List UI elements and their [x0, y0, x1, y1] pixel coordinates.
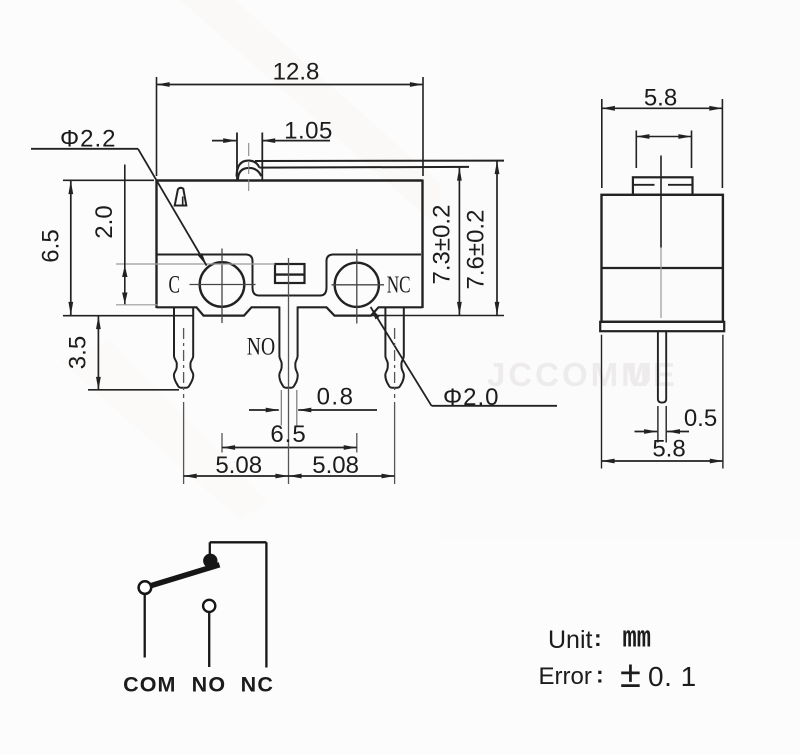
svg-text:Φ2.0: Φ2.0	[443, 384, 500, 411]
svg-text:NC: NC	[387, 272, 411, 298]
svg-text:5.08: 5.08	[215, 452, 262, 479]
body bottom edge with dips	[157, 307, 423, 315]
dim 0.5 extensions	[658, 406, 666, 443]
leader Phi2.0	[432, 405, 558, 407]
svg-text:7.3±0.2: 7.3±0.2	[429, 205, 456, 285]
dim 0.8 extensions	[281, 390, 297, 426]
dim 2.0 line	[124, 165, 126, 305]
pin 2 (NO terminal)	[279, 307, 297, 388]
svg-text:NO: NO	[192, 672, 227, 696]
side view centre line	[660, 156, 662, 248]
svg-text:mm: mm	[623, 622, 652, 657]
centre window rectangle	[275, 264, 305, 283]
schematic top wire	[210, 541, 267, 543]
button width dim line	[636, 136, 691, 138]
dim 6.5 left: extensions	[63, 180, 194, 315]
switch body outline (front view)	[157, 180, 423, 309]
dim 7.3 extension/bottom ext	[372, 315, 504, 317]
svg-text:Φ2.2: Φ2.2	[60, 126, 117, 153]
dim 5.8 top line	[602, 107, 723, 109]
plunger dome outer arc	[237, 161, 260, 177]
schematic NO wire	[208, 612, 210, 667]
button width dim extensions	[636, 131, 691, 169]
schematic COM drop wire	[209, 542, 211, 555]
svg-text:6.5: 6.5	[270, 421, 306, 448]
svg-text:7.6±0.2: 7.6±0.2	[463, 210, 490, 290]
svg-text:0.5: 0.5	[684, 405, 717, 432]
dim 3.5 extension	[88, 389, 179, 391]
dim 12.8 line	[157, 84, 424, 86]
lever bottom line	[259, 166, 469, 169]
svg-text:Error: Error	[539, 663, 592, 690]
svg-text::: :	[596, 662, 604, 688]
svg-text:COM: COM	[123, 672, 176, 696]
schematic lever (thick)	[147, 565, 220, 587]
svg-text:12.8: 12.8	[273, 59, 320, 86]
pin 1 (COM terminal)	[174, 307, 193, 388]
dim 5.8 bottom extensions	[602, 335, 723, 469]
dim 5.8 top extensions	[602, 99, 723, 188]
svg-text:NC: NC	[241, 672, 274, 696]
schematic COM contact circle	[139, 581, 152, 594]
svg-text:Unit: Unit	[548, 626, 593, 654]
svg-text:±: ±	[620, 654, 641, 696]
dim 7.3 line	[458, 168, 460, 316]
svg-text:UE: UE	[628, 356, 676, 393]
latch tab inner tick	[182, 197, 184, 205]
side view pin	[658, 331, 666, 402]
dim 5.08 right line	[289, 475, 395, 477]
contact circle C	[200, 262, 245, 307]
pin 3 (NC terminal)	[385, 307, 404, 388]
schematic NO contact circle	[203, 600, 215, 612]
dim 6.5 bottom extensions	[222, 433, 357, 453]
dim 7.6 line	[496, 161, 498, 315]
dim 6.5 bottom line	[222, 447, 357, 449]
svg-text:1.05: 1.05	[284, 118, 333, 145]
svg-text:5.8: 5.8	[652, 436, 685, 463]
plunger centre dash line	[248, 143, 250, 191]
circle centre lines	[190, 249, 385, 324]
side view button	[633, 177, 693, 195]
side view base flange	[600, 322, 724, 331]
dim 1.05 extension lines (continue as plunger sides)	[237, 133, 262, 180]
dim 0.5 arrows	[635, 431, 658, 433]
dim 0.8 arrows	[249, 409, 279, 411]
background tint streaks	[60, 0, 800, 540]
dim 12.8 extension lines	[157, 77, 424, 176]
small latch tab	[175, 188, 187, 206]
dim 3.5 line	[97, 316, 99, 390]
dim 1.05 arrows	[212, 140, 236, 142]
svg-text:JCCOMM: JCCOMM	[487, 356, 652, 393]
dim 5.08 extension centre lines	[184, 258, 395, 484]
side view body	[602, 195, 723, 322]
schematic NC wire	[265, 542, 267, 667]
lever top line	[255, 160, 504, 162]
svg-text:3.5: 3.5	[65, 336, 92, 369]
svg-text:0. 1: 0. 1	[648, 661, 697, 692]
svg-text:NO: NO	[247, 331, 275, 360]
dim 6.5 left line	[70, 181, 72, 315]
dim 2.0 faint extensions	[116, 264, 275, 305]
contact circle NC	[335, 263, 379, 307]
inner cover plate line	[158, 255, 422, 296]
side view mid divider	[602, 267, 723, 269]
svg-text:0.8: 0.8	[317, 384, 355, 411]
svg-text:6.5: 6.5	[38, 229, 65, 262]
plunger dome inner arc	[238, 168, 261, 180]
dim 5.8 bottom line	[602, 460, 723, 462]
svg-text:2.0: 2.0	[91, 205, 118, 238]
svg-text::: :	[594, 625, 602, 651]
schematic pivot dot	[203, 554, 217, 568]
leader Phi2.2	[31, 148, 138, 150]
svg-text:C: C	[169, 272, 181, 299]
dim 5.08 left line	[184, 475, 289, 477]
svg-text:5.8: 5.8	[644, 85, 677, 112]
schematic COM wire	[144, 594, 146, 658]
svg-text:5.08: 5.08	[312, 452, 359, 479]
